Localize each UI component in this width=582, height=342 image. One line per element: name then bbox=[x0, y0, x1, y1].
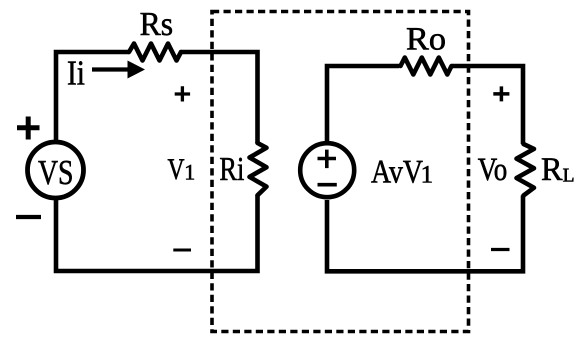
wire: dependent source top to Ro bbox=[327, 66, 399, 141]
svg-text:AvV: AvV bbox=[371, 154, 423, 190]
current arrow Ii bbox=[92, 67, 132, 71]
resistor Ri bbox=[250, 143, 267, 195]
- inside dependent source bbox=[318, 183, 337, 187]
svg-text:Ro: Ro bbox=[406, 22, 446, 58]
resistor Ro bbox=[401, 58, 452, 75]
polarity + of VS bbox=[17, 117, 40, 140]
resistor RL bbox=[517, 144, 535, 196]
+ inside dependent source bbox=[318, 150, 337, 169]
svg-text:VS: VS bbox=[38, 153, 74, 192]
svg-text:L: L bbox=[563, 165, 575, 186]
polarity - of V1 bbox=[173, 249, 191, 252]
svg-text:1: 1 bbox=[421, 162, 434, 189]
svg-text:Ri: Ri bbox=[219, 151, 244, 188]
svg-text:Rs: Rs bbox=[140, 6, 174, 43]
voltage source VS (circle) bbox=[28, 142, 84, 198]
dashed amplifier box bbox=[212, 12, 469, 332]
svg-text:Ii: Ii bbox=[67, 53, 85, 92]
resistor Rs bbox=[129, 44, 181, 61]
svg-text:1: 1 bbox=[184, 159, 195, 184]
polarity + of V1 bbox=[175, 86, 190, 101]
wire: Rs to node over Ri bbox=[181, 52, 258, 143]
svg-text:Vo: Vo bbox=[478, 152, 508, 188]
dependent source AvV1 (circle) bbox=[300, 143, 354, 197]
svg-text:R: R bbox=[541, 152, 563, 188]
wire: Ri bottom, bottom-left rail to VS bbox=[56, 195, 258, 271]
wire: RL bottom, bottom rail to dependent source bbox=[327, 196, 523, 272]
polarity + of Vo bbox=[493, 86, 509, 101]
wire: VS top to Rs bbox=[56, 52, 129, 140]
wire: Ro to RL top bbox=[452, 66, 524, 144]
polarity - of VS bbox=[16, 215, 41, 219]
polarity - of Vo bbox=[491, 248, 510, 251]
svg-text:V: V bbox=[168, 153, 185, 186]
